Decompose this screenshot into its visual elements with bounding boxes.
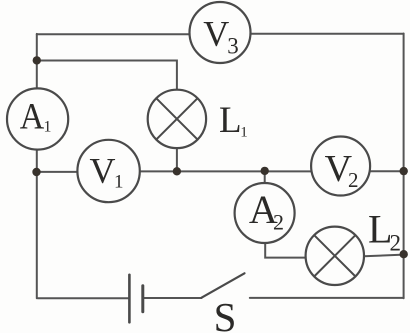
node: junction right main [400,167,408,175]
battery B1 [129,275,142,323]
node: junction top-left [33,56,41,64]
wire [265,243,306,258]
node: junction L1-main [173,167,181,175]
wire [37,33,190,35]
svg-text:2: 2 [390,231,402,256]
wire [37,61,177,91]
svg-text:2: 2 [273,209,284,234]
label L2 [368,206,401,255]
svg-text:V: V [203,13,229,53]
node: junction left main [32,168,40,176]
ammeter A2 [235,183,295,243]
wire [250,297,404,299]
wire [370,170,404,172]
voltmeter V3 [190,2,251,63]
svg-text:L: L [219,100,242,141]
ammeter A1 [7,88,68,149]
svg-text:S: S [214,294,237,333]
wire [364,255,404,257]
wire [37,171,78,173]
wire [264,171,266,183]
wire [38,297,129,299]
wire [36,34,38,89]
wire [36,150,38,299]
lamp L1 [148,90,206,148]
node: junction L2-right [400,250,408,258]
node: junction A2-main [261,167,269,175]
label L1 [219,100,248,141]
switch S [202,273,245,297]
svg-text:V: V [90,150,116,190]
svg-text:1: 1 [240,124,248,140]
svg-text:A: A [20,96,45,137]
lamp L2 [306,227,364,285]
svg-text:3: 3 [227,34,239,59]
wire [144,297,201,299]
voltmeter V2 [311,137,370,196]
svg-text:1: 1 [114,172,124,193]
svg-text:1: 1 [44,119,52,136]
svg-text:2: 2 [348,168,359,192]
wire [140,170,311,172]
voltmeter V1 [77,140,139,202]
wire [403,34,405,299]
wire [251,33,404,35]
wire [176,149,178,172]
